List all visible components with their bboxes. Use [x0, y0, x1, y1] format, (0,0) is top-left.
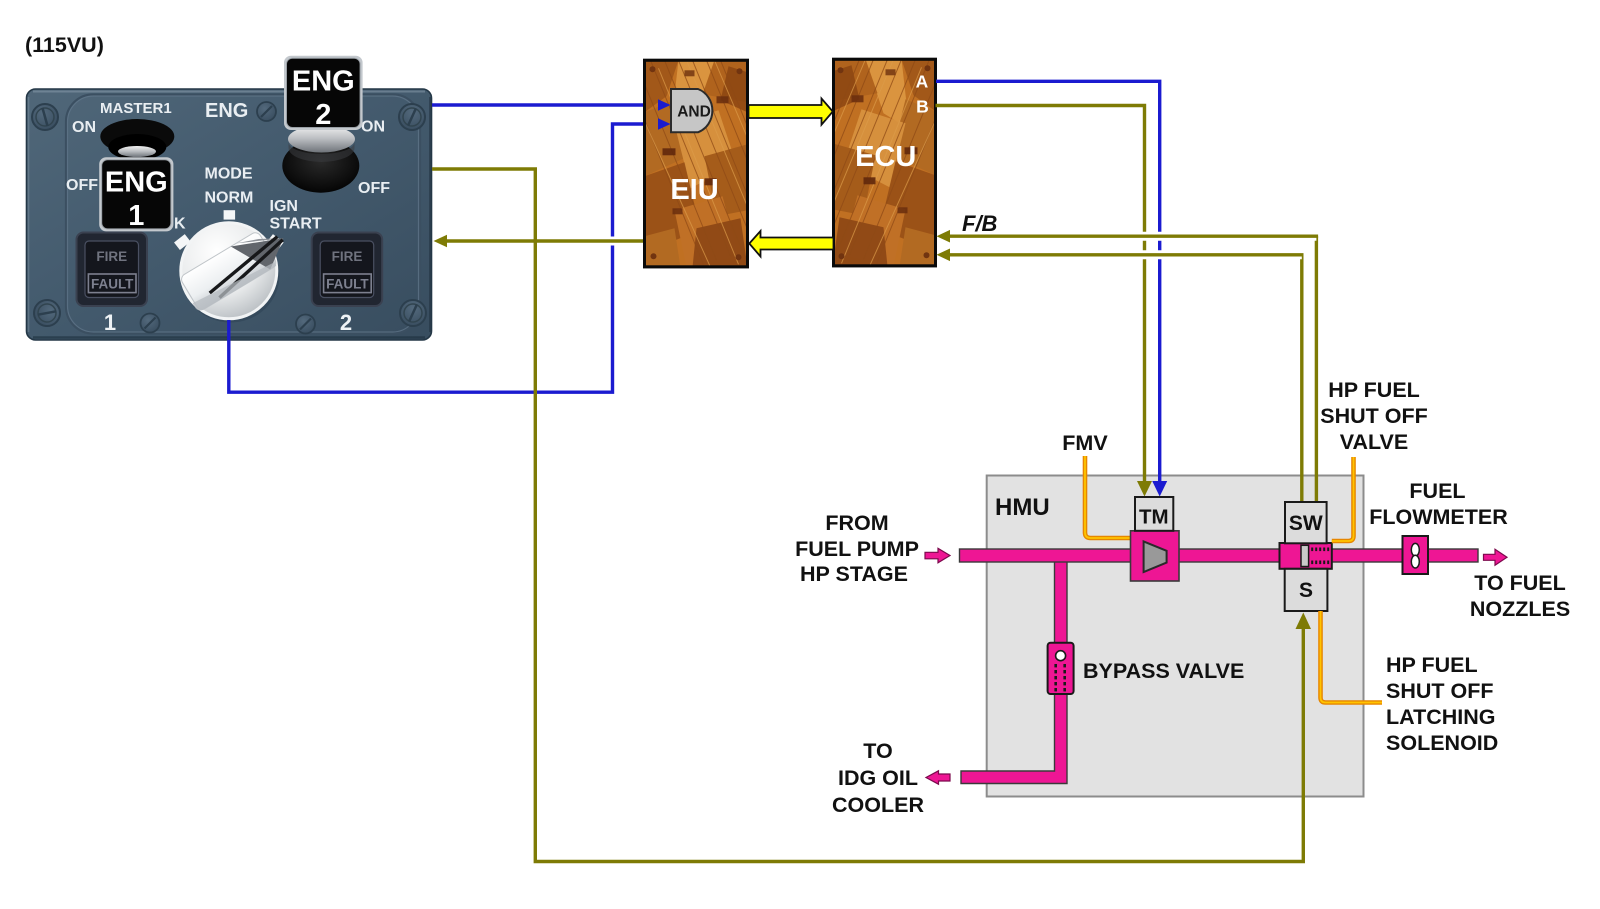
label HMU [995, 494, 1050, 521]
label (115VU) [25, 33, 104, 57]
svg-text:HP FUEL: HP FUEL [1386, 653, 1478, 677]
SW switch box [1285, 502, 1327, 543]
ECU box [780, 59, 956, 266]
fuel flowmeter [1403, 536, 1429, 574]
svg-text:HMU: HMU [995, 494, 1050, 521]
label FROM FUEL PUMP HP STAGE [795, 511, 919, 586]
svg-text:HP STAGE: HP STAGE [800, 562, 908, 586]
svg-text:SHUT OFF: SHUT OFF [1320, 404, 1428, 428]
svg-text:A: A [916, 72, 929, 92]
label OFF switch1 [66, 177, 98, 194]
label NORM [205, 190, 254, 207]
svg-text:ON: ON [361, 119, 385, 136]
label FMV [1062, 431, 1108, 455]
label OFF switch2 [358, 180, 390, 197]
label pin B [916, 97, 929, 117]
svg-text:FUEL: FUEL [1409, 479, 1465, 503]
panel small screw bottom-right-center [296, 315, 315, 334]
label HP FUEL SHUT OFF VALVE [1320, 378, 1428, 454]
panel small screw top-center [257, 102, 276, 121]
label TO IDG OIL COOLER [832, 739, 924, 817]
svg-text:(115VU): (115VU) [25, 33, 104, 57]
label BYPASS VALVE [1083, 659, 1244, 683]
svg-text:START: START [270, 216, 322, 233]
yellow block arrow EIU to ECU [749, 99, 833, 125]
svg-text:OFF: OFF [66, 177, 98, 194]
svg-text:1: 1 [104, 310, 116, 335]
wire olive F/B 1 from SW to ECU [937, 230, 1319, 502]
svg-text:ENG: ENG [105, 167, 168, 199]
svg-text:K: K [174, 216, 186, 233]
wire blue panel to AND input 1 [432, 103, 659, 106]
arrow to fuel nozzles [1484, 549, 1508, 565]
label 2 [340, 310, 352, 335]
arrow from fuel pump [925, 548, 950, 563]
fuel pipe after flowmeter [1428, 549, 1478, 562]
svg-text:B: B [916, 97, 929, 117]
svg-text:ENG: ENG [205, 100, 248, 122]
ENG 2 placard [284, 56, 363, 131]
svg-text:MODE: MODE [205, 166, 253, 183]
fuel pipe branch to IDG oil cooler [961, 556, 1067, 784]
HMU box [987, 476, 1364, 797]
toggle switch 2 lever dome [288, 126, 355, 163]
arrowhead blue AND input 1 [658, 99, 671, 111]
svg-text:FAULT: FAULT [91, 277, 134, 292]
orange wire HP fuel shut off latching solenoid [1321, 611, 1383, 703]
svg-text:NOZZLES: NOZZLES [1470, 597, 1570, 621]
svg-text:ECU: ECU [855, 141, 916, 173]
panel corner screw bottom-right [395, 295, 432, 332]
label MODE [205, 166, 253, 183]
svg-text:FIRE: FIRE [332, 249, 363, 264]
arrow to IDG oil cooler [926, 771, 950, 784]
svg-text:FLOWMETER: FLOWMETER [1369, 505, 1508, 529]
svg-text:COOLER: COOLER [832, 793, 924, 817]
label ON switch2 [361, 119, 385, 136]
svg-text:FIRE: FIRE [96, 249, 127, 264]
label IGN [270, 198, 298, 215]
FMV valve body [1131, 531, 1180, 581]
svg-text:FMV: FMV [1062, 431, 1108, 455]
svg-text:AND: AND [677, 104, 711, 121]
svg-text:IGN: IGN [270, 198, 298, 215]
toggle switch 1 MASTER1 [100, 119, 174, 160]
svg-text:LATCHING: LATCHING [1386, 705, 1495, 729]
label 1 [104, 310, 116, 335]
EIU box [625, 60, 801, 267]
HP fuel shut off valve assembly [1280, 543, 1332, 569]
FIRE FAULT button 1 [77, 233, 148, 307]
S solenoid box [1285, 569, 1328, 611]
label ECU [855, 141, 916, 173]
svg-text:TO: TO [863, 739, 892, 763]
FIRE FAULT button 2 [312, 233, 383, 307]
panel corner screw bottom-left [33, 299, 61, 327]
svg-text:OFF: OFF [358, 180, 390, 197]
ENG 1 placard [99, 157, 173, 232]
panel small screw bottom-left-center [141, 314, 160, 333]
svg-text:ENG: ENG [292, 66, 355, 98]
svg-text:TM: TM [1139, 506, 1169, 529]
svg-text:EIU: EIU [670, 174, 718, 206]
yellow block arrow ECU to EIU [749, 231, 833, 257]
label MASTER1 [100, 100, 172, 117]
TM torque motor box [1135, 497, 1173, 531]
svg-text:NORM: NORM [205, 190, 254, 207]
AND gate U-EIU [671, 89, 712, 132]
wire blue panel bottom loop to AND input 2 [229, 124, 659, 392]
label ENG panel title [205, 100, 248, 122]
label FUEL FLOWMETER [1369, 479, 1508, 529]
svg-text:SOLENOID: SOLENOID [1386, 731, 1498, 755]
panel corner screw top-left [32, 104, 58, 130]
svg-text:ON: ON [72, 119, 96, 136]
svg-text:BYPASS VALVE: BYPASS VALVE [1083, 659, 1244, 683]
ENG control panel (115VU) body [27, 89, 432, 340]
label ON switch1 [72, 119, 96, 136]
svg-text:SW: SW [1289, 512, 1323, 535]
wire olive EIU to panel feedback [434, 235, 647, 247]
label START [270, 216, 322, 233]
svg-text:FAULT: FAULT [326, 277, 369, 292]
toggle switch 2 boot [282, 139, 359, 193]
svg-text:IDG OIL: IDG OIL [838, 766, 918, 790]
label HP FUEL SHUT OFF LATCHING SOLENOID [1386, 653, 1498, 755]
label TO FUEL NOZZLES [1470, 571, 1570, 621]
wire olive ECU B to HMU TM [936, 106, 1153, 497]
main fuel pipe from HP pump [960, 549, 1404, 562]
orange wire HP fuel shut off valve [1332, 457, 1354, 541]
panel corner screw top-right [394, 99, 431, 136]
label F/B [962, 211, 998, 236]
svg-text:HP FUEL: HP FUEL [1328, 378, 1420, 402]
svg-text:FROM: FROM [825, 511, 888, 535]
bypass valve [1048, 643, 1074, 694]
rotary mode selector knob [178, 221, 294, 322]
wire olive panel to HMU S solenoid (bottom run) [432, 169, 1311, 862]
svg-text:1: 1 [128, 200, 144, 232]
label EIU [670, 174, 718, 206]
svg-text:2: 2 [315, 99, 331, 131]
label K [174, 216, 186, 233]
svg-text:MASTER1: MASTER1 [100, 100, 172, 117]
arrowhead blue AND input 2 [658, 118, 671, 130]
svg-text:TO FUEL: TO FUEL [1474, 571, 1566, 595]
svg-text:F/B: F/B [962, 211, 998, 236]
svg-text:FUEL PUMP: FUEL PUMP [795, 537, 919, 561]
label pin A [916, 72, 929, 92]
svg-text:VALVE: VALVE [1340, 430, 1409, 454]
wire olive F/B 2 from SW to ECU [937, 249, 1304, 503]
svg-text:S: S [1299, 579, 1313, 602]
svg-text:2: 2 [340, 310, 352, 335]
svg-text:SHUT OFF: SHUT OFF [1386, 679, 1494, 703]
wire blue ECU A to HMU TM [936, 81, 1167, 496]
rotary mode selector knob ticks [174, 210, 284, 250]
orange wire FMV [1085, 456, 1131, 538]
